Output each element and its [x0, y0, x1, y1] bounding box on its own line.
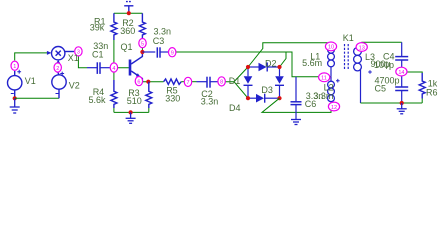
node 3 [75, 47, 82, 56]
wire fan to bridge bottom-left [234, 82, 248, 99]
node 1 [11, 61, 18, 70]
junction dot bottom rail right [400, 101, 404, 105]
wire C1 to base of Q1 [111, 67, 129, 69]
svg-text:Q1: Q1 [121, 42, 133, 52]
node 14 [396, 67, 407, 76]
label R6 [426, 79, 438, 98]
svg-text:10: 10 [328, 45, 334, 51]
ground symbol V1 [10, 98, 20, 113]
node 4 [110, 63, 117, 72]
label R5 [165, 85, 180, 103]
wire R2 bottom to collector node [141, 39, 143, 52]
source V2 [52, 72, 66, 99]
label L1 [302, 51, 322, 68]
label D1 [229, 76, 241, 86]
resistor R3 [146, 82, 152, 108]
diode D1 left edge [244, 67, 253, 98]
label C6 [305, 91, 323, 109]
label C4 [374, 52, 395, 71]
node 7 [184, 77, 191, 86]
svg-text:C6: C6 [305, 99, 317, 109]
junction dot V1 bottom [13, 96, 17, 100]
diode D2 top edge [248, 63, 280, 72]
label R2 [120, 18, 135, 36]
label L2 [313, 82, 333, 101]
svg-text:13: 13 [359, 45, 365, 51]
label C2 [201, 89, 219, 106]
svg-text:3.3n: 3.3n [201, 96, 219, 106]
svg-text:100p: 100p [374, 60, 394, 70]
power rail wire [114, 12, 142, 14]
svg-text:7: 7 [187, 80, 190, 86]
capacitor C1 [87, 62, 111, 74]
inductor L3 [354, 42, 372, 103]
capacitor C3 [142, 47, 168, 57]
label C3 [153, 27, 171, 47]
svg-text:360: 360 [120, 26, 135, 36]
capacitor C4 [395, 42, 408, 87]
multiplier X1 [52, 47, 75, 60]
label Q1 [121, 42, 133, 52]
wire node 9 run to transformer riser [168, 52, 331, 77]
svg-text:9: 9 [171, 51, 174, 57]
label V1 [25, 76, 36, 86]
svg-text:11: 11 [321, 76, 327, 82]
svg-text:C1: C1 [92, 50, 104, 60]
wire node 14 rail to R6 [406, 72, 422, 73]
svg-text:C3: C3 [153, 36, 165, 46]
transformer K1 core [345, 44, 349, 71]
svg-text:5.6m: 5.6m [302, 58, 322, 68]
wire emitter row [142, 81, 163, 83]
resistor R1 [111, 13, 117, 40]
resistor R2 [139, 13, 145, 39]
junction dot power rail [127, 11, 131, 15]
label C5 [375, 76, 400, 94]
label V2 [69, 80, 80, 90]
node 11 [319, 73, 330, 82]
node 12 [328, 102, 339, 111]
svg-text:D4: D4 [229, 103, 241, 113]
wire node 1 to X1 input [15, 53, 48, 61]
svg-text:C5: C5 [375, 84, 387, 94]
wire R3 bottom [148, 108, 150, 112]
capacitor C5 [395, 87, 408, 103]
wire node8 lead and fan to bridge top-left [218, 67, 248, 82]
resistor R4 [111, 80, 117, 108]
wire ground rail R3 R4 [114, 111, 149, 113]
wire L3 top to C4 [361, 41, 401, 43]
wire node 3 to C1 [78, 56, 87, 68]
svg-text:D3: D3 [261, 85, 273, 95]
wire TR corner riser [280, 52, 287, 67]
node 5 [139, 39, 146, 48]
svg-text:39k: 39k [90, 22, 105, 32]
inductor L1 [328, 46, 335, 76]
source V1 [8, 70, 22, 99]
svg-text:5: 5 [141, 41, 144, 47]
ground symbol right [397, 103, 407, 114]
label R4 [89, 87, 107, 105]
node 10 [325, 42, 336, 51]
svg-text:3.3n: 3.3n [154, 27, 172, 37]
wire node 7 row [181, 81, 196, 83]
label X1 [68, 53, 79, 63]
capacitor C6 [291, 77, 302, 120]
svg-text:V1: V1 [25, 76, 36, 86]
wire V1 to V2 bottom [15, 97, 59, 99]
inductor L2 [328, 77, 340, 102]
top long wire from bridge TL to node 10 [248, 43, 331, 67]
node 8 [218, 77, 225, 86]
svg-text:V2: V2 [69, 80, 80, 90]
label L3 [365, 52, 391, 69]
junction dot emitter [146, 80, 150, 84]
svg-text:2: 2 [56, 66, 59, 72]
label D4 [229, 103, 241, 113]
junction dots bridge corners [246, 65, 282, 100]
label D2 [265, 58, 277, 68]
X1 input arrow left [47, 51, 52, 55]
node 6 [135, 77, 142, 86]
X1 input arrow bottom [56, 60, 60, 64]
node 13 [356, 43, 367, 52]
svg-text:510: 510 [127, 96, 142, 106]
svg-text:X1: X1 [68, 53, 79, 63]
junction dot ground rail [129, 110, 133, 114]
svg-text:K1: K1 [343, 33, 354, 43]
wire R6 bottom [421, 99, 423, 104]
wire bottom rail right [361, 102, 423, 104]
label K1 [343, 33, 354, 43]
resistor R6 [419, 73, 425, 99]
label R3 [127, 88, 142, 106]
wire node4 to R4 top [113, 68, 115, 80]
diode D4 bottom edge [248, 94, 280, 103]
wire R1 bottom to node 4 [113, 40, 115, 68]
junction dot collector [140, 50, 144, 54]
svg-text:R6: R6 [426, 87, 438, 97]
svg-text:8: 8 [220, 80, 223, 86]
label D3 [261, 85, 273, 95]
svg-text:5.6k: 5.6k [89, 95, 107, 105]
svg-text:330: 330 [165, 93, 180, 103]
resistor R5 [164, 79, 182, 84]
svg-text:6: 6 [137, 79, 140, 85]
wire R4 bottom [113, 108, 115, 112]
ground symbol below C6 [291, 120, 301, 125]
ground symbol below R3 R4 [126, 112, 136, 123]
transistor Q1 [130, 52, 142, 82]
diode D3 right edge [275, 67, 284, 98]
svg-text:1: 1 [13, 64, 16, 70]
svg-text:12: 12 [331, 105, 337, 111]
svg-text:4: 4 [112, 66, 115, 72]
wire BR corner to bottom run to L2 bottom [262, 98, 331, 112]
node 9 [169, 48, 176, 57]
label R1 [90, 16, 106, 32]
node 2 [54, 63, 61, 72]
svg-text:D2: D2 [265, 58, 277, 68]
capacitor C2 [197, 77, 219, 88]
svg-text:D1: D1 [229, 76, 241, 86]
power ground symbol (inverted) at top [124, 2, 133, 14]
label C1 [92, 41, 108, 60]
